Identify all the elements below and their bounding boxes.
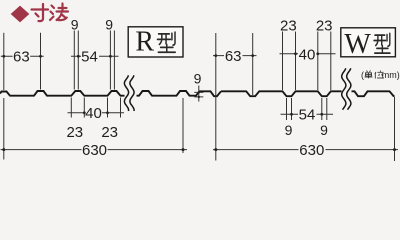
svg-text:mm): mm) <box>382 70 400 80</box>
W notch3 9-pair below <box>322 98 327 120</box>
W-type label box <box>341 28 396 60</box>
R 54 dim line <box>71 55 119 57</box>
svg-text:9: 9 <box>105 17 113 33</box>
W-type profile line <box>221 91 395 96</box>
W 630 right vertical <box>394 97 396 161</box>
W 40 dim line <box>280 53 336 55</box>
svg-text:630: 630 <box>82 142 107 159</box>
W notch2 23-pair <box>283 32 296 91</box>
R-type profile line <box>0 91 221 96</box>
R 63 dim line <box>1 55 44 57</box>
R 630 dim line <box>1 149 188 151</box>
svg-text:630: 630 <box>299 142 324 159</box>
svg-text:W: W <box>344 29 371 60</box>
kanji 型 in W box <box>374 33 390 53</box>
W 54 dim line <box>281 113 334 115</box>
svg-text:23: 23 <box>101 124 118 141</box>
kanji 単 <box>365 71 373 79</box>
svg-text:23: 23 <box>280 17 297 34</box>
W notch3 23-pair <box>318 32 331 91</box>
svg-text:63: 63 <box>225 48 242 65</box>
R height-9 dim <box>194 86 203 102</box>
R 630 left vertical <box>3 98 5 160</box>
svg-text:9: 9 <box>320 122 328 138</box>
R ext line rib1 center <box>40 33 42 90</box>
svg-text:40: 40 <box>299 46 316 63</box>
break mark left <box>124 75 134 111</box>
svg-text:54: 54 <box>81 49 98 66</box>
title text 寸 <box>32 4 49 21</box>
svg-text:R: R <box>135 27 154 58</box>
break mark right <box>342 68 351 109</box>
dimension end dots <box>2 52 396 151</box>
R 40 dim line <box>68 112 125 114</box>
W 63 dim line <box>213 55 257 57</box>
R rib2 base pair below <box>71 98 84 118</box>
R 630 right vertical <box>182 98 184 153</box>
R-type label box <box>128 27 183 58</box>
svg-text:40: 40 <box>85 105 102 122</box>
svg-text:9: 9 <box>194 71 202 87</box>
svg-text:9: 9 <box>285 122 293 138</box>
W notch2 9-pair below <box>287 98 292 120</box>
svg-text:63: 63 <box>13 49 30 66</box>
svg-text:23: 23 <box>316 17 333 34</box>
(単位mm) note <box>361 70 400 80</box>
W ext notch1 center <box>252 33 254 95</box>
title diamond <box>11 6 30 23</box>
W 630 dim line <box>213 149 398 151</box>
R ext line left edge top <box>3 33 5 90</box>
svg-text:23: 23 <box>66 124 83 141</box>
R rib3 9-pair <box>110 31 114 90</box>
title text 法 <box>50 4 68 21</box>
kanji 位 <box>375 71 384 79</box>
dimension texts <box>13 17 332 160</box>
R rib2 9-pair <box>74 31 78 90</box>
R rib3 base pair below <box>108 98 121 118</box>
svg-text:9: 9 <box>71 17 79 33</box>
svg-text:54: 54 <box>299 106 316 123</box>
svg-text:(: ( <box>361 70 364 80</box>
W ext left edge <box>215 33 217 161</box>
kanji 型 in R box <box>158 32 176 52</box>
